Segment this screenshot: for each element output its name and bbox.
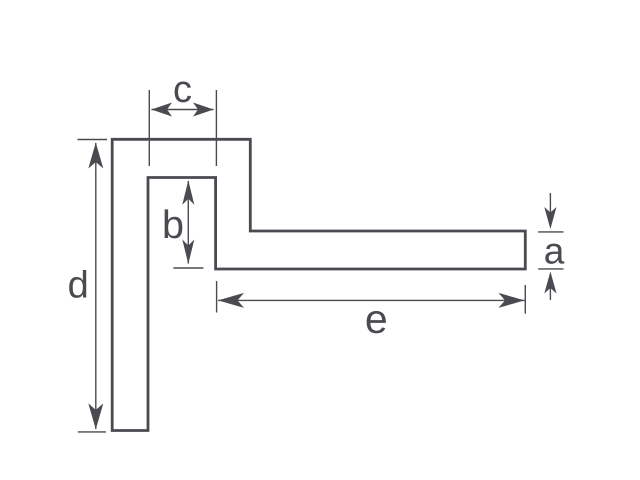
svg-text:b: b <box>162 203 184 247</box>
svg-text:e: e <box>365 296 388 342</box>
svg-text:d: d <box>68 265 89 307</box>
svg-text:a: a <box>544 231 565 272</box>
svg-text:c: c <box>173 69 192 111</box>
